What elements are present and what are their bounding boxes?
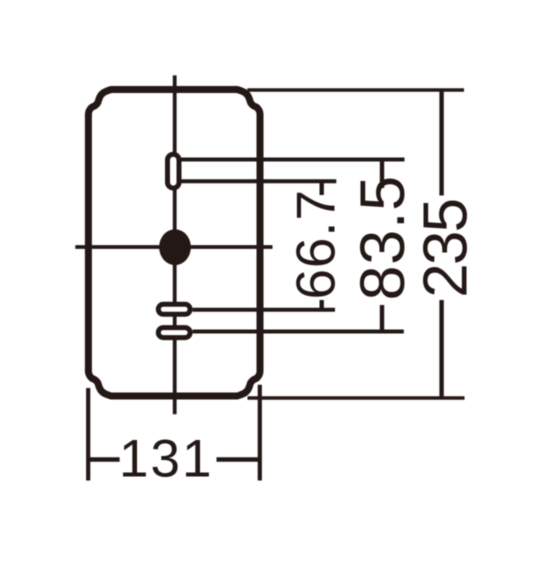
extension line from top slot lower arc center (to 66.7) — [181, 179, 336, 183]
extension line bottom (to 235) — [248, 396, 465, 400]
svg-text:131: 131 — [119, 430, 213, 489]
extension line right (to 131) — [258, 385, 262, 481]
extension line top (to 235) — [247, 88, 464, 91]
horizontal centerline — [75, 245, 272, 249]
svg-text:235: 235 — [412, 200, 481, 298]
body corner bottom-left — [88, 371, 111, 397]
body outline: left edge — [85, 114, 92, 372]
dimension line 235 (upper stub) — [439, 90, 443, 196]
vertical centerline — [173, 75, 177, 414]
svg-text:66.7: 66.7 — [285, 189, 347, 299]
body corner top-left — [88, 90, 111, 116]
dimension line 235 (lower stub) — [439, 300, 443, 398]
dimension line 66.7 (upper stub) — [320, 181, 324, 195]
extension line from top slot upper arc center (to 83.5) — [181, 158, 405, 162]
extension line left (to 131) — [86, 388, 90, 481]
body outline: right edge — [257, 114, 264, 372]
mounting hole (filled circle) — [159, 229, 191, 265]
dimension line 131 (left segment) — [88, 457, 119, 462]
bottom slot 2 — [158, 328, 190, 338]
extension line from bottom slot 2 (to 83.5) — [193, 330, 404, 334]
body corner bottom-right — [237, 371, 260, 397]
bottom slot 1 — [158, 304, 190, 314]
top slot — [168, 154, 180, 188]
body outline: bottom edge — [111, 393, 237, 400]
dimension line 83.5 (lower stub) — [380, 305, 384, 332]
body outline: top edge — [111, 86, 237, 93]
extension line from bottom slot 1 (to 66.7) — [193, 308, 335, 312]
dimension line 131 (right segment) — [217, 457, 260, 462]
dimension line 66.7 (lower stub) — [320, 300, 324, 310]
svg-text:83.5: 83.5 — [348, 175, 418, 300]
body corner top-right — [237, 90, 260, 116]
dimension line 83.5 (upper stub) — [380, 160, 384, 189]
